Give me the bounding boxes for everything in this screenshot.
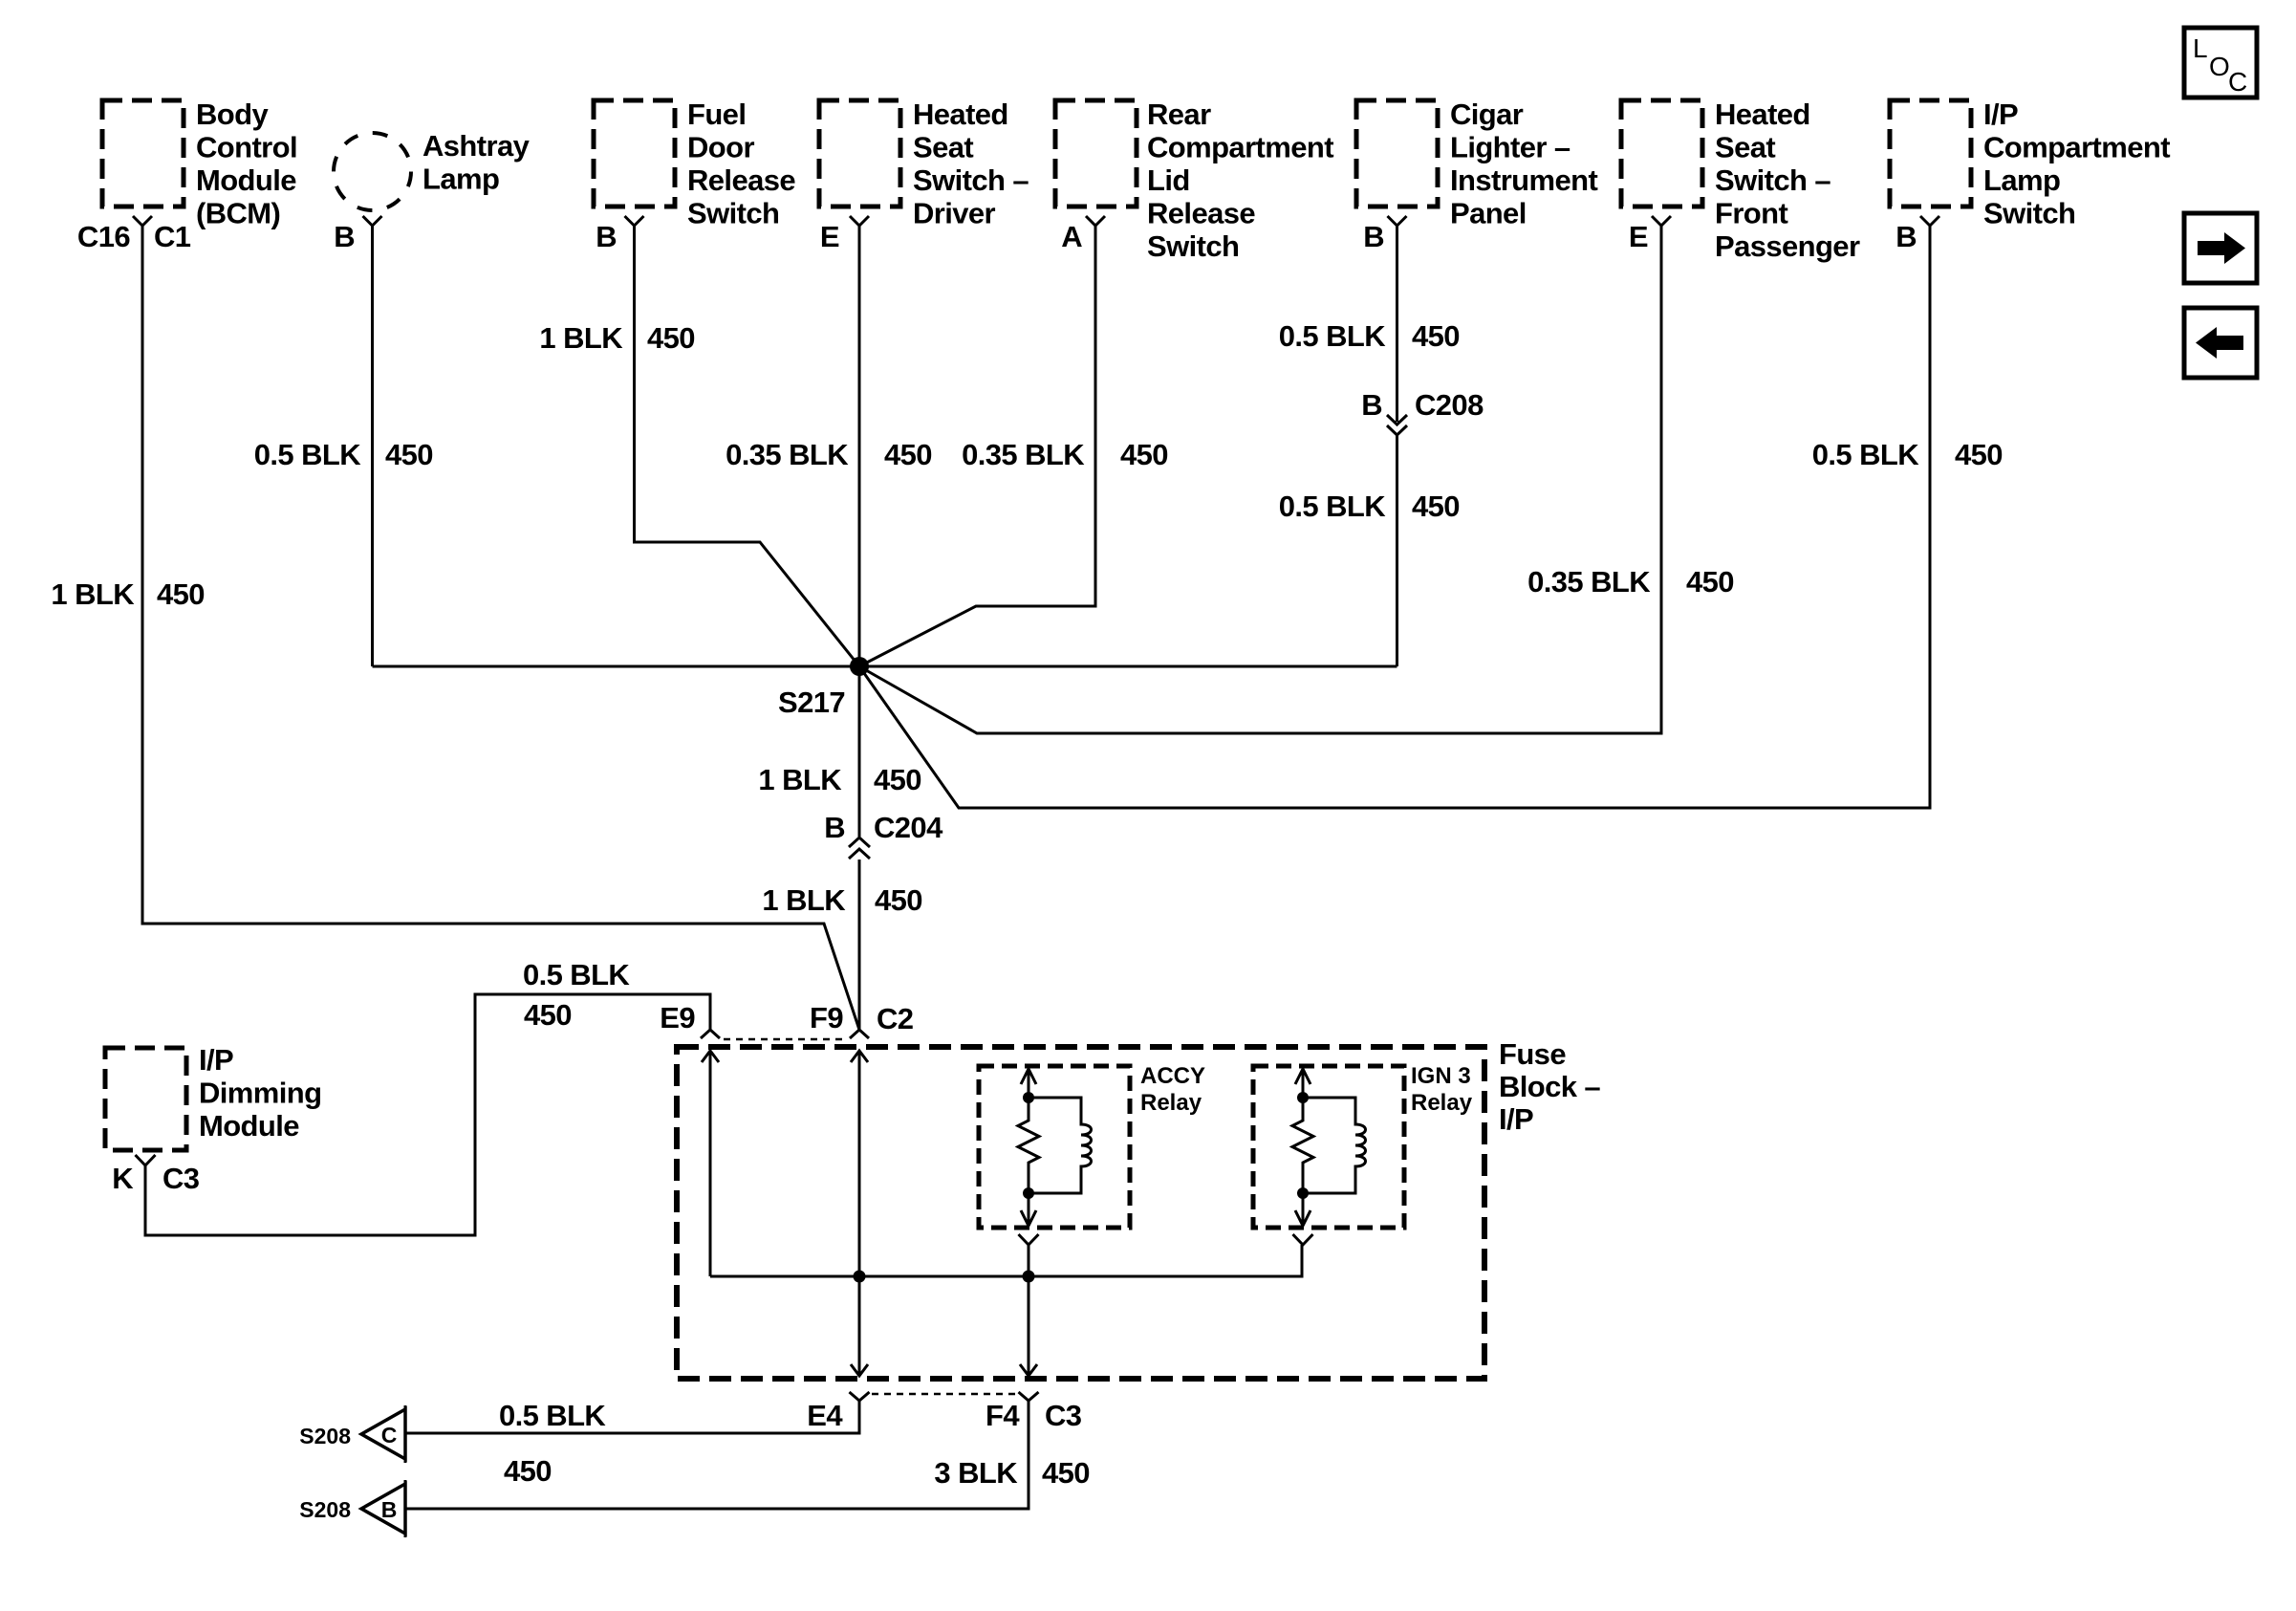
wire label 0.5 BLK 450 (cigar upper) bbox=[1279, 319, 1460, 353]
IGN 3 relay output arrow bbox=[1295, 1193, 1310, 1226]
wire fuel door switch to S217 (1 BLK 450) bbox=[635, 226, 860, 666]
wire F9 through fuse block to E4 bbox=[851, 1051, 868, 1376]
svg-text:E: E bbox=[1629, 220, 1648, 253]
splice S208 B bbox=[299, 1480, 405, 1537]
svg-text:Fuel: Fuel bbox=[687, 98, 746, 131]
svg-text:Lamp: Lamp bbox=[1983, 163, 2060, 197]
rear compartment switch pin A bbox=[1061, 216, 1105, 253]
wire ashtray to S217 (0.5 BLK 450) bbox=[371, 226, 374, 666]
svg-text:C16: C16 bbox=[77, 220, 130, 253]
heated seat switch front passenger bbox=[1621, 98, 1860, 263]
svg-text:S208: S208 bbox=[299, 1497, 351, 1522]
wire label 0.5 BLK 450 (E4 wire) bbox=[499, 1399, 606, 1488]
connector C208 pin B bbox=[1361, 388, 1484, 435]
svg-text:1 BLK: 1 BLK bbox=[51, 577, 135, 611]
ACCY relay bbox=[979, 1063, 1205, 1228]
ashtray lamp pin B bbox=[334, 216, 381, 253]
IGN 3 relay pin to bus bbox=[1293, 1234, 1313, 1245]
ACCY relay top junction bbox=[1023, 1092, 1034, 1103]
legend arrow left box bbox=[2184, 308, 2257, 378]
pin E4 bbox=[807, 1392, 869, 1432]
svg-text:1 BLK: 1 BLK bbox=[758, 763, 842, 796]
wire F4 to S208 B (3 BLK 450) bbox=[405, 1401, 1029, 1509]
ACCY relay coil bbox=[1029, 1098, 1092, 1193]
svg-text:450: 450 bbox=[157, 577, 205, 611]
svg-text:F4: F4 bbox=[986, 1399, 1020, 1432]
wire label 0.5 BLK 450 (lamp switch) bbox=[1812, 438, 2003, 471]
ACCY relay coil feed arrow bbox=[1021, 1069, 1036, 1098]
wire label 1 BLK 450 (fuel door) bbox=[539, 321, 695, 355]
svg-text:Body: Body bbox=[196, 98, 269, 131]
cigar lighter instrument panel bbox=[1356, 98, 1597, 230]
svg-text:B: B bbox=[334, 220, 355, 253]
ashtray lamp bbox=[334, 129, 531, 210]
wire heated seat passenger to S217 (0.35 BLK 450) bbox=[859, 226, 1661, 733]
svg-text:3 BLK: 3 BLK bbox=[934, 1456, 1018, 1490]
svg-text:Lighter –: Lighter – bbox=[1450, 131, 1570, 164]
wire label 0.35 BLK 450 (driver) bbox=[726, 438, 932, 471]
wire C208 to S217 (0.5 BLK 450) bbox=[1396, 435, 1398, 666]
svg-text:450: 450 bbox=[1042, 1456, 1090, 1490]
svg-text:B: B bbox=[1895, 220, 1917, 253]
svg-text:S208: S208 bbox=[299, 1424, 351, 1448]
svg-text:Switch: Switch bbox=[1147, 229, 1239, 263]
svg-text:IGN 3: IGN 3 bbox=[1411, 1063, 1471, 1089]
svg-text:Lid: Lid bbox=[1147, 163, 1190, 197]
svg-text:B: B bbox=[381, 1497, 398, 1522]
legend arrow right box bbox=[2184, 213, 2257, 283]
svg-text:Block –: Block – bbox=[1499, 1070, 1600, 1103]
splice S208 C bbox=[299, 1405, 405, 1463]
svg-text:L: L bbox=[2193, 33, 2208, 63]
svg-text:E9: E9 bbox=[660, 1001, 695, 1034]
wire heated seat driver to S217 (0.35 BLK 450) bbox=[858, 226, 861, 666]
wire label 0.5 BLK 450 (cigar lower) bbox=[1279, 490, 1460, 523]
svg-text:Seat: Seat bbox=[1715, 131, 1775, 164]
splice S217 bbox=[778, 657, 869, 719]
svg-text:Dimming: Dimming bbox=[199, 1077, 321, 1110]
svg-text:450: 450 bbox=[1412, 490, 1460, 523]
svg-text:450: 450 bbox=[1686, 565, 1734, 599]
wire rear compartment switch to S217 (0.35 BLK 450) bbox=[859, 226, 1095, 666]
svg-text:0.35 BLK: 0.35 BLK bbox=[726, 438, 849, 471]
I/P dimming module pin K / C3 bbox=[112, 1155, 200, 1195]
svg-text:Switch –: Switch – bbox=[1715, 163, 1830, 197]
wire ACCY bus to F4 bbox=[1028, 1276, 1030, 1376]
svg-text:O: O bbox=[2209, 52, 2230, 81]
ACCY relay bottom junction bbox=[1023, 1187, 1034, 1199]
LOC legend box bbox=[2184, 28, 2257, 98]
wire S217 down to C204 (1 BLK 450) bbox=[858, 666, 861, 837]
ACCY relay output arrow bbox=[1021, 1193, 1036, 1226]
svg-text:1 BLK: 1 BLK bbox=[539, 321, 623, 355]
heated seat switch driver bbox=[819, 98, 1029, 230]
pin E9 bbox=[660, 1001, 720, 1038]
svg-text:0.35 BLK: 0.35 BLK bbox=[962, 438, 1085, 471]
svg-text:450: 450 bbox=[647, 321, 695, 355]
I/P compartment lamp switch bbox=[1890, 98, 2170, 230]
wire I/P compartment lamp switch to S217 (0.5 BLK 450) bbox=[859, 226, 1930, 808]
svg-text:B: B bbox=[1361, 388, 1382, 422]
BCM pin C16 / C1 bbox=[77, 216, 191, 253]
svg-text:C204: C204 bbox=[874, 811, 943, 844]
svg-text:F9: F9 bbox=[810, 1001, 843, 1034]
wire label 0.35 BLK 450 (rear compartment) bbox=[962, 438, 1168, 471]
svg-text:450: 450 bbox=[1120, 438, 1168, 471]
svg-text:Cigar: Cigar bbox=[1450, 98, 1524, 131]
svg-text:450: 450 bbox=[884, 438, 932, 471]
svg-text:C: C bbox=[381, 1423, 398, 1448]
fuel door release switch bbox=[594, 98, 795, 230]
svg-text:E: E bbox=[820, 220, 839, 253]
wire label 0.5 BLK 450 (ashtray) bbox=[254, 438, 433, 471]
I/P dimming module bbox=[105, 1043, 321, 1150]
svg-text:Module: Module bbox=[196, 163, 296, 197]
svg-text:I/P: I/P bbox=[1983, 98, 2018, 131]
svg-text:B: B bbox=[1363, 220, 1384, 253]
svg-text:Lamp: Lamp bbox=[422, 163, 499, 196]
wire E9 into fuse block bbox=[702, 1051, 719, 1276]
svg-text:Switch: Switch bbox=[687, 197, 779, 230]
svg-text:Relay: Relay bbox=[1140, 1090, 1202, 1116]
svg-text:0.5 BLK: 0.5 BLK bbox=[1279, 490, 1386, 523]
pin F9 connector C2 bbox=[810, 1001, 913, 1038]
rear compartment lid release switch bbox=[1055, 98, 1333, 263]
svg-text:I/P: I/P bbox=[199, 1043, 233, 1077]
svg-text:0.5 BLK: 0.5 BLK bbox=[1279, 319, 1386, 353]
wire label 0.35 BLK 450 (passenger) bbox=[1527, 565, 1734, 599]
svg-text:Release: Release bbox=[1147, 197, 1255, 230]
internal ground bus in fuse block bbox=[710, 1245, 1302, 1276]
svg-text:0.5 BLK: 0.5 BLK bbox=[499, 1399, 606, 1432]
I/P compartment lamp switch pin B bbox=[1895, 216, 1939, 253]
svg-text:0.5 BLK: 0.5 BLK bbox=[523, 958, 630, 991]
svg-text:A: A bbox=[1061, 220, 1082, 253]
svg-text:Compartment: Compartment bbox=[1147, 131, 1333, 164]
svg-text:S217: S217 bbox=[778, 686, 845, 719]
svg-text:Compartment: Compartment bbox=[1983, 131, 2170, 164]
svg-text:Rear: Rear bbox=[1147, 98, 1211, 131]
svg-text:0.5 BLK: 0.5 BLK bbox=[1812, 438, 1919, 471]
svg-text:Ashtray: Ashtray bbox=[422, 129, 531, 163]
svg-text:Switch –: Switch – bbox=[913, 163, 1029, 197]
connector C204 pin B bbox=[824, 811, 943, 859]
svg-text:K: K bbox=[112, 1162, 134, 1195]
svg-text:Heated: Heated bbox=[1715, 98, 1810, 131]
svg-text:Seat: Seat bbox=[913, 131, 973, 164]
IGN 3 relay bbox=[1253, 1063, 1473, 1228]
svg-text:I/P: I/P bbox=[1499, 1102, 1533, 1136]
IGN 3 relay resistor bbox=[1292, 1098, 1313, 1193]
svg-text:450: 450 bbox=[1955, 438, 2003, 471]
svg-text:450: 450 bbox=[385, 438, 433, 471]
fuel door switch pin B bbox=[596, 216, 643, 253]
junction dot bus/ACCY bbox=[1023, 1271, 1035, 1283]
svg-text:C3: C3 bbox=[162, 1162, 200, 1195]
wire label 3 BLK 450 (F4 wire) bbox=[934, 1456, 1090, 1490]
body control module (BCM) bbox=[102, 98, 297, 230]
svg-text:0.35 BLK: 0.35 BLK bbox=[1527, 565, 1651, 599]
svg-text:Front: Front bbox=[1715, 197, 1787, 230]
svg-text:450: 450 bbox=[504, 1454, 552, 1488]
connector C2 dashed line bbox=[724, 1038, 846, 1041]
wire BCM C1 to fuse block F9 (1 BLK 450) bbox=[142, 226, 859, 1030]
svg-text:Driver: Driver bbox=[913, 197, 996, 230]
heated seat driver pin E bbox=[820, 216, 869, 253]
svg-text:450: 450 bbox=[1412, 319, 1460, 353]
svg-text:Switch: Switch bbox=[1983, 197, 2075, 230]
svg-text:Release: Release bbox=[687, 163, 795, 197]
wire main horizontal bus into S217 bbox=[373, 665, 1397, 668]
svg-text:C1: C1 bbox=[154, 220, 191, 253]
junction dot bus/F9 bbox=[854, 1271, 866, 1283]
cigar lighter pin B bbox=[1363, 216, 1406, 253]
wire label 1 BLK 450 (BCM) bbox=[51, 577, 205, 611]
wire label 1 BLK 450 (below C204) bbox=[762, 883, 922, 917]
IGN 3 relay coil bbox=[1303, 1098, 1366, 1193]
svg-text:C2: C2 bbox=[877, 1002, 913, 1035]
svg-text:Instrument: Instrument bbox=[1450, 163, 1597, 197]
wire E4 to S208 C (0.5 BLK 450) bbox=[405, 1401, 859, 1433]
svg-text:Module: Module bbox=[199, 1109, 299, 1143]
wire label 0.5 BLK 450 (dimming to E9) bbox=[523, 958, 630, 1032]
wire C204 to fuse block F9 (1 BLK 450) bbox=[858, 860, 861, 1030]
svg-text:450: 450 bbox=[874, 763, 921, 796]
heated seat passenger pin E bbox=[1629, 216, 1671, 253]
svg-text:Fuse: Fuse bbox=[1499, 1037, 1566, 1071]
wire dimming module K to fuse block E9 (0.5 BLK 450) bbox=[145, 994, 710, 1235]
svg-text:Relay: Relay bbox=[1411, 1090, 1473, 1116]
svg-text:450: 450 bbox=[875, 883, 922, 917]
fuse block I/P bbox=[677, 1037, 1600, 1379]
IGN 3 relay coil feed arrow bbox=[1295, 1069, 1310, 1098]
svg-text:E4: E4 bbox=[807, 1399, 843, 1432]
svg-text:450: 450 bbox=[524, 998, 572, 1032]
wire label 1 BLK 450 (above C204) bbox=[758, 763, 921, 796]
svg-text:B: B bbox=[824, 811, 845, 844]
svg-text:C208: C208 bbox=[1415, 388, 1484, 422]
svg-text:(BCM): (BCM) bbox=[196, 197, 280, 230]
IGN 3 relay top junction bbox=[1297, 1092, 1309, 1103]
svg-text:ACCY: ACCY bbox=[1140, 1063, 1205, 1089]
svg-text:1 BLK: 1 BLK bbox=[762, 883, 846, 917]
svg-text:Panel: Panel bbox=[1450, 197, 1527, 230]
pin F4 connector C3 bbox=[986, 1392, 1082, 1432]
svg-text:B: B bbox=[596, 220, 617, 253]
ACCY relay resistor bbox=[1018, 1098, 1039, 1193]
connector C3 dashed line bbox=[872, 1393, 1017, 1396]
svg-text:0.5 BLK: 0.5 BLK bbox=[254, 438, 361, 471]
svg-text:Door: Door bbox=[687, 131, 754, 164]
svg-text:Control: Control bbox=[196, 131, 297, 164]
ACCY relay pin to bus bbox=[1019, 1234, 1039, 1276]
wire cigar lighter to C208 (0.5 BLK 450) bbox=[1396, 226, 1398, 422]
svg-text:Passenger: Passenger bbox=[1715, 229, 1860, 263]
svg-text:Heated: Heated bbox=[913, 98, 1008, 131]
svg-text:C3: C3 bbox=[1045, 1399, 1082, 1432]
IGN 3 relay bottom junction bbox=[1297, 1187, 1309, 1199]
svg-text:C: C bbox=[2228, 67, 2247, 97]
